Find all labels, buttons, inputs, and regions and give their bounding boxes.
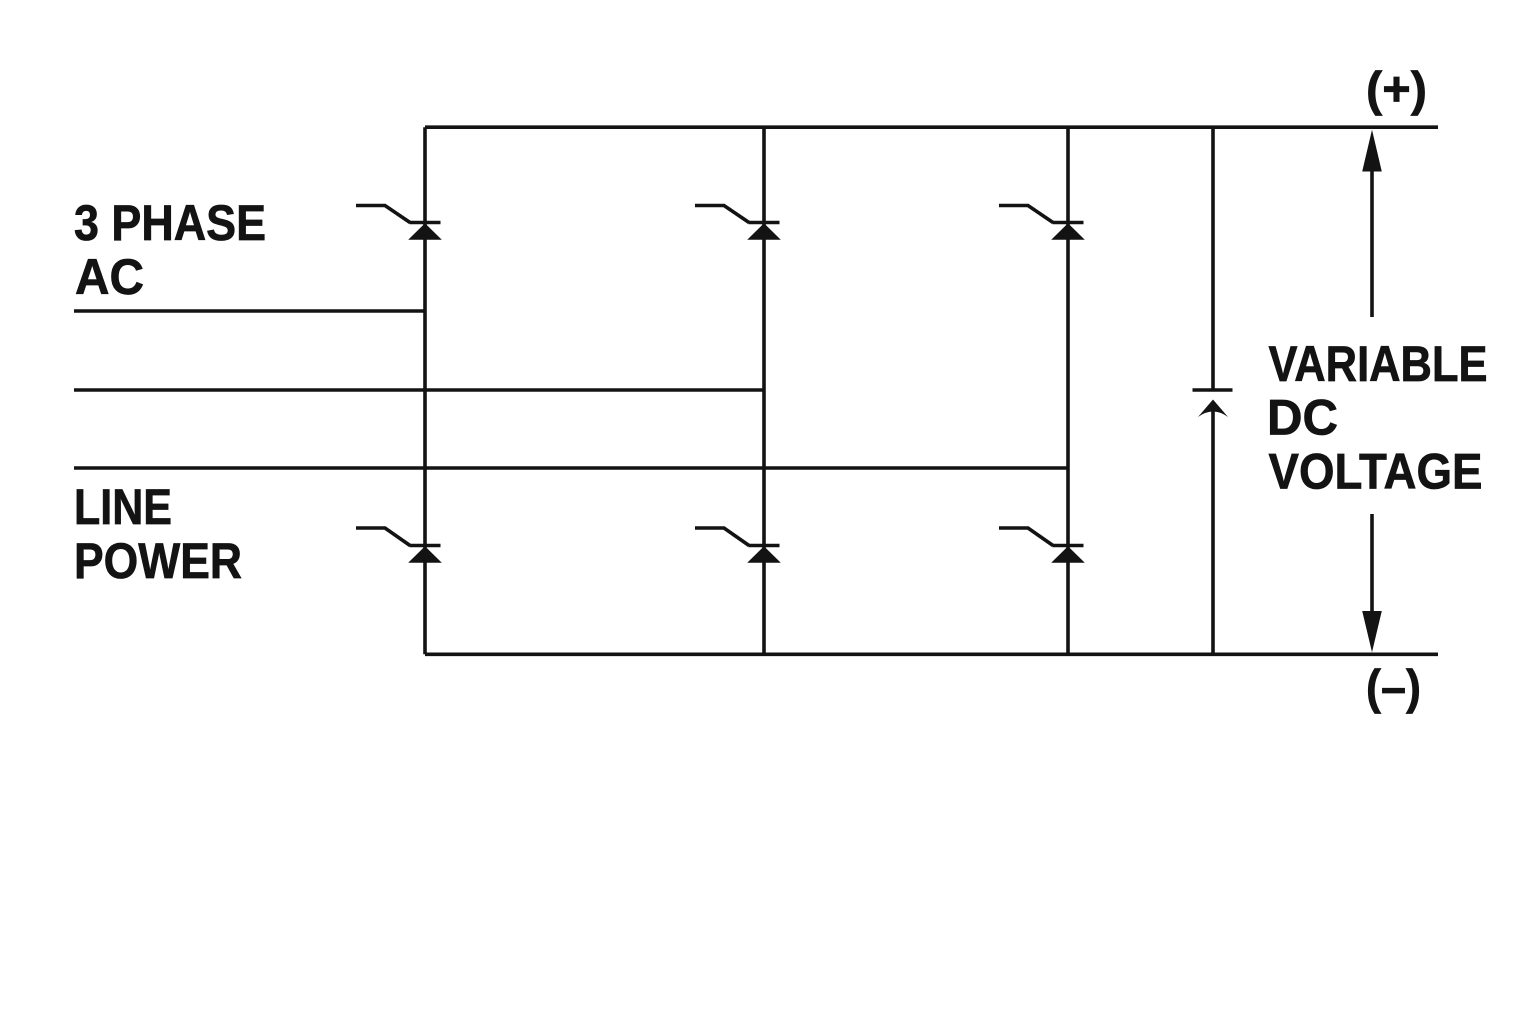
net label: (-) negative DC terminal	[1366, 662, 1421, 715]
wire: DC output branch upper segment (x=1213)	[1211, 127, 1215, 390]
svg-text:(+): (+)	[1366, 64, 1427, 117]
wire: bridge leg 1 vertical (x=425)	[423, 127, 427, 654]
wire: DC output branch lower segment (x=1213)	[1211, 408, 1215, 654]
node label: VARIABLE DC VOLTAGE	[1267, 335, 1488, 500]
node label: LINE POWER	[74, 478, 242, 589]
svg-text:AC: AC	[75, 248, 144, 305]
svg-text:DC: DC	[1267, 389, 1338, 446]
svg-text:VOLTAGE: VOLTAGE	[1269, 443, 1483, 500]
wire: bottom (-) DC rail	[425, 652, 1438, 656]
thyristor SCR4 (bottom row, leg 1)	[356, 528, 442, 563]
thyristor SCR3 (top row, leg 3)	[999, 206, 1085, 240]
svg-text:(–): (–)	[1366, 662, 1421, 715]
wire: top (+) DC rail	[425, 125, 1438, 129]
arrow: DC voltage measurement, down toward (-) rail	[1362, 514, 1382, 652]
net label: (+) positive DC terminal	[1366, 64, 1427, 117]
thyristor SCR2 (top row, leg 2)	[695, 206, 781, 240]
svg-text:3 PHASE: 3 PHASE	[74, 194, 266, 251]
diode D1 (output branch bar + arrowhead)	[1193, 390, 1233, 417]
arrow: DC voltage measurement, up toward (+) rail	[1362, 130, 1382, 317]
svg-text:LINE: LINE	[74, 478, 172, 535]
svg-text:POWER: POWER	[74, 532, 242, 589]
wire: bridge leg 2 vertical (x=764)	[762, 127, 766, 654]
svg-text:VARIABLE: VARIABLE	[1269, 335, 1488, 392]
wire: bridge leg 3 vertical (x=1068)	[1066, 127, 1070, 654]
node label: 3 PHASE AC	[74, 194, 266, 305]
thyristor SCR5 (bottom row, leg 2)	[695, 528, 781, 563]
wire: phase B input line	[74, 388, 764, 392]
thyristor SCR1 (top row, leg 1)	[356, 206, 442, 240]
thyristor SCR6 (bottom row, leg 3)	[999, 528, 1085, 563]
wire: phase C input line	[74, 466, 1068, 470]
wire: phase A input line	[74, 309, 425, 313]
